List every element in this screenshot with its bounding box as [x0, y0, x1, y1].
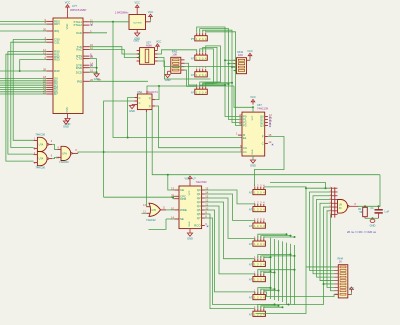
- wire TxD to U2: [90, 47, 137, 54]
- svg-text:VCC: VCC: [252, 115, 254, 120]
- wire DSR net: [90, 80, 149, 82]
- wire sense net 7: [331, 215, 335, 291]
- wire U5A Q2: [155, 86, 159, 100]
- no-connect marks U7: [91, 24, 93, 26]
- ground RC: [370, 219, 376, 228]
- svg-text:U5A: U5A: [137, 90, 142, 94]
- svg-text:GND: GND: [129, 109, 135, 113]
- svg-text:VCC: VCC: [247, 49, 253, 53]
- svg-text:A?: A?: [191, 56, 195, 60]
- wire connector taps 5: [258, 270, 295, 274]
- svg-text:A?: A?: [249, 224, 253, 228]
- ground U7 modem pins: [90, 59, 100, 82]
- svg-text:RDY: RDY: [54, 22, 60, 26]
- svg-text:GND: GND: [165, 78, 171, 82]
- wire RxC to U2: [90, 50, 137, 58]
- wire D3: [0, 84, 47, 86]
- power flag VCC RN2: [247, 49, 253, 60]
- wire RS0 to gate: [8, 52, 47, 155]
- wire RS3 join: [20, 60, 47, 71]
- svg-text:1K: 1K: [339, 260, 342, 264]
- svg-text:U?A: U?A: [39, 143, 44, 146]
- nand gate U3A: [34, 133, 53, 152]
- svg-text:RxC: RxC: [76, 48, 82, 52]
- svg-text:A?: A?: [249, 242, 253, 246]
- wire U8 CPC CPR: [104, 195, 175, 198]
- svg-text:D7: D7: [54, 92, 58, 96]
- svg-text:VCC: VCC: [189, 190, 191, 195]
- connector A?: [191, 67, 207, 77]
- svg-text:RxD: RxD: [76, 31, 82, 35]
- svg-text:RCO: RCO: [194, 224, 201, 228]
- svg-text:GND: GND: [133, 40, 139, 43]
- wires header A3 taps: [200, 85, 225, 86]
- svg-text:VCC: VCC: [349, 286, 355, 290]
- power flag VCC U7: [65, 0, 87, 18]
- wire U8 Q5 to connector: [205, 210, 255, 292]
- power flag VCC U6: [250, 95, 268, 112]
- svg-text:10K: 10K: [172, 53, 177, 57]
- ground oscillator: [134, 30, 140, 41]
- svg-text:74HC139: 74HC139: [257, 107, 269, 111]
- svg-text:GND: GND: [187, 236, 193, 240]
- wire D5: [0, 89, 47, 91]
- connector A?: [249, 271, 265, 281]
- nand gate U3B: [34, 152, 53, 170]
- svg-text:74HC00: 74HC00: [35, 133, 45, 137]
- svg-text:A?: A?: [249, 208, 253, 212]
- svg-text:74HC590: 74HC590: [196, 180, 208, 184]
- resistor network RN4 1K: [335, 256, 348, 298]
- svg-text:GND: GND: [370, 224, 376, 228]
- wire chip-select net to U6: [78, 152, 242, 153]
- svg-text:U?A: U?A: [62, 152, 67, 155]
- svg-text:GND: GND: [63, 124, 69, 128]
- wire U6 F output loop: [254, 137, 284, 187]
- wire U8 Q3 to connector: [205, 202, 255, 259]
- wire sense net 3: [317, 200, 335, 278]
- wire feedback from counter: [379, 175, 381, 207]
- wire RN2 pin1 tap: [225, 59, 234, 61]
- ground RN1: [165, 71, 171, 82]
- svg-text:CS1: CS1: [54, 40, 60, 44]
- wire U8 SE stub: [166, 218, 175, 220]
- wire connector chain verticals: [270, 238, 272, 299]
- svg-text:WRE: WRE: [180, 208, 187, 212]
- wire U8 Q7 bottom run: [205, 218, 289, 305]
- wire U5A Q to U6: [155, 106, 242, 148]
- svg-text:OUT EN: OUT EN: [133, 23, 142, 25]
- svg-text:CTS: CTS: [76, 57, 82, 61]
- ground U5A: [129, 105, 135, 113]
- svg-text:RS3: RS3: [54, 58, 60, 62]
- connector A?: [249, 236, 265, 246]
- wire U8 Q2 to connector: [205, 198, 255, 238]
- power flag VCC U8: [185, 176, 208, 186]
- svg-text:CE: CE: [180, 188, 184, 192]
- power flag VCC oscillator EN: [146, 10, 154, 22]
- wire connector taps 4: [258, 255, 291, 259]
- svg-text:Q: Q: [149, 97, 151, 100]
- wire D0: [0, 78, 47, 80]
- svg-text:74HC00: 74HC00: [35, 165, 45, 169]
- connector A?: [249, 306, 265, 316]
- svg-text:IRQ: IRQ: [77, 79, 83, 83]
- wire RS1 to gate: [6, 54, 47, 161]
- wire header P pin1 bus: [197, 27, 242, 117]
- wire gate in1 from U5A: [145, 112, 147, 207]
- svg-text:1.8432MHz: 1.8432MHz: [115, 11, 129, 15]
- wire CS1 to gate: [11, 42, 47, 147]
- wire NAND output: [359, 205, 379, 207]
- resistor R1 56 Ohm: [358, 206, 367, 218]
- wire U2 out long y66.5: [158, 58, 236, 67]
- wire U8 Q0 to connector: [205, 190, 255, 204]
- svg-text:VSS: VSS: [65, 107, 69, 113]
- svg-text:GND: GND: [252, 149, 254, 154]
- wire U5A to counter: [152, 110, 380, 175]
- wire U8 SE run: [149, 219, 167, 229]
- nand gate U3C: [56, 146, 78, 164]
- svg-text:VCC: VCC: [185, 178, 190, 181]
- connector A?: [249, 184, 265, 194]
- wire CS0 to gate: [13, 40, 46, 141]
- wire gate out to WRE: [166, 209, 175, 211]
- IC U8 74HC590: [171, 186, 209, 229]
- wire sense net 0: [306, 188, 335, 267]
- resistor network RN2 10K: [234, 50, 251, 74]
- svg-text:A?: A?: [191, 73, 195, 77]
- wire U8 Q1 to connector: [205, 194, 255, 220]
- wire clock down to U6: [113, 22, 242, 138]
- svg-text:A?: A?: [249, 191, 253, 195]
- wire RN4 common from field: [264, 292, 339, 297]
- svg-text:A?: A?: [249, 296, 253, 300]
- wire sense net 5: [324, 207, 335, 284]
- svg-text:GND: GND: [250, 163, 256, 167]
- svg-text:74AHC74: 74AHC74: [146, 90, 158, 94]
- svg-text:4066: 4066: [146, 44, 152, 48]
- wire RN2 pin2 tap: [229, 63, 234, 65]
- wires header A staircase: [200, 49, 214, 86]
- svg-text:VCC: VCC: [134, 1, 140, 5]
- svg-text:D: D: [139, 97, 141, 100]
- svg-text:12: 12: [268, 140, 271, 144]
- svg-text:E1: E1: [243, 136, 247, 140]
- wire gate A out to gate C: [52, 144, 57, 149]
- wire U5A clock: [147, 86, 234, 91]
- connector A?: [249, 201, 265, 211]
- flip-flop U5A 74AHC74: [134, 90, 158, 112]
- svg-text:Q: Q: [149, 105, 151, 108]
- svg-text:DCD: DCD: [76, 70, 82, 74]
- wire upper loops right: [270, 183, 326, 189]
- wire U2 out to header A pin1: [158, 50, 197, 54]
- oscillator X1 1.8432MHz: [115, 11, 146, 30]
- svg-text:Q7: Q7: [197, 216, 201, 220]
- connector A?: [191, 50, 207, 60]
- wire R/W: [0, 70, 47, 72]
- svg-text:SE: SE: [180, 217, 184, 221]
- or gate 74HC32: [143, 203, 166, 222]
- svg-text:10K: 10K: [238, 53, 243, 57]
- svg-text:IRQ: IRQ: [54, 29, 60, 33]
- IC U2 4066: [133, 40, 161, 65]
- wire header P pin3 bus: [203, 30, 242, 122]
- wire bottom loop to pull-up field: [287, 243, 324, 305]
- wire header P pin2 bus: [200, 29, 242, 120]
- svg-text:W65C51N6P: W65C51N6P: [70, 8, 86, 12]
- connector A?: [249, 289, 265, 299]
- nand gate U9 74HC30: [330, 187, 359, 218]
- svg-text:VCC: VCC: [250, 95, 256, 99]
- wire connector taps 6: [258, 288, 271, 292]
- wire RxD: [90, 32, 108, 34]
- svg-text:74HC32: 74HC32: [146, 218, 156, 222]
- svg-text:U?D: U?D: [152, 210, 157, 212]
- wire U2 out lower: [158, 61, 211, 79]
- svg-text:Q3: Q3: [260, 124, 264, 128]
- svg-text:26 ns <= RC <= 620 us: 26 ns <= RC <= 620 us: [347, 230, 377, 234]
- svg-text:C1: C1: [243, 150, 247, 154]
- power flag VCC oscillator top: [134, 1, 140, 15]
- ground U7 bottom: [65, 114, 71, 126]
- svg-text:C: C: [262, 142, 264, 146]
- svg-text:XTAL2: XTAL2: [73, 23, 82, 27]
- svg-text:R/W: R/W: [54, 69, 60, 73]
- svg-text:VCC: VCC: [65, 0, 71, 4]
- wire RN2 pin4 tap: [234, 69, 236, 71]
- svg-text:VCC: VCC: [65, 24, 69, 30]
- power flag VCC U2: [156, 44, 160, 51]
- svg-text:74HC00: 74HC00: [59, 160, 69, 164]
- wire sense net 2: [313, 196, 335, 274]
- wire D4: [0, 86, 47, 88]
- svg-text:A?: A?: [249, 263, 253, 267]
- svg-text:C: C: [139, 102, 141, 105]
- wire U8 CE: [168, 175, 175, 190]
- svg-text:U?A: U?A: [39, 158, 44, 161]
- connector A?: [249, 218, 265, 228]
- svg-text:F: F: [262, 135, 264, 139]
- svg-text:DSR: DSR: [76, 66, 82, 70]
- IC U7 W65C51 ACIA: [43, 18, 93, 114]
- connector P?: [191, 31, 207, 41]
- wire D7: [0, 93, 47, 95]
- wire RN1 to header A3: [185, 70, 197, 86]
- wire sense net 4: [320, 203, 335, 280]
- ground U8: [187, 229, 193, 241]
- svg-text:P?: P?: [191, 37, 195, 41]
- wire sense net 1: [310, 192, 335, 270]
- wire U8 Q6 to connector: [205, 214, 255, 309]
- ground near gates: [63, 119, 69, 129]
- wire clock to VCC node U6: [234, 86, 253, 107]
- svg-text:1 uF: 1 uF: [384, 210, 389, 213]
- ground U6: [250, 156, 256, 167]
- IC U6 74HC139: [236, 112, 273, 156]
- wire sense net 6: [327, 211, 335, 288]
- svg-text:A?: A?: [249, 278, 253, 282]
- wire field drop left: [256, 267, 307, 314]
- wire connector taps 7: [258, 304, 275, 308]
- svg-text:VCC: VCC: [148, 10, 154, 14]
- capacitor C1 1uF: [371, 206, 390, 218]
- wire U5A D feedback to decoder: [128, 98, 135, 138]
- wire D1: [0, 80, 47, 82]
- svg-text:dsr: dsr: [98, 78, 102, 82]
- resistor network RN1 10K: [168, 50, 185, 74]
- wire RN2 pin3 tap: [232, 66, 234, 68]
- svg-text:A?: A?: [249, 312, 253, 316]
- connector A?: [249, 256, 265, 266]
- wire RES: [0, 20, 47, 22]
- wire RDY: [0, 23, 47, 25]
- svg-text:P3: P3: [243, 124, 247, 128]
- svg-text:U6?: U6?: [257, 103, 262, 107]
- svg-text:VCC: VCC: [156, 41, 161, 44]
- svg-text:A?: A?: [191, 90, 195, 94]
- svg-text:CPR: CPR: [180, 197, 186, 201]
- wire RC ground node: [365, 217, 379, 219]
- svg-text:GND: GND: [189, 221, 191, 226]
- connector A?: [191, 84, 207, 94]
- wire gate B out to gate C: [52, 157, 57, 158]
- wire header P pin4 bus: [206, 32, 242, 126]
- wire connector taps 3: [258, 234, 287, 238]
- power flag VCC RN4: [348, 286, 355, 294]
- wire IRQ: [0, 30, 47, 32]
- wire D6: [0, 91, 47, 93]
- wire D2: [0, 82, 47, 84]
- wire RN1 to header A2: [185, 63, 197, 86]
- wire gate in2: [142, 212, 147, 214]
- wire XTAL1 clock: [90, 21, 130, 23]
- wire U8 Q4 to connector: [205, 206, 255, 274]
